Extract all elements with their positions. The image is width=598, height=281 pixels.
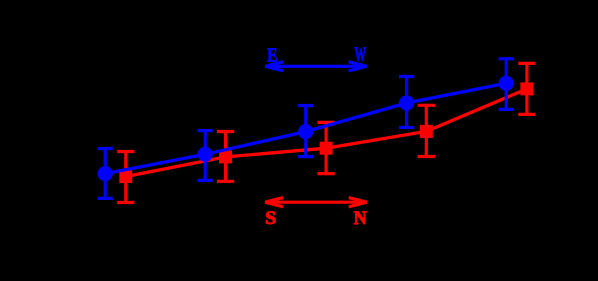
svg-text:W: W	[355, 44, 367, 66]
svg-text:E: E	[267, 44, 277, 66]
svg-text:N: N	[354, 208, 367, 229]
svg-text:S: S	[265, 208, 276, 229]
